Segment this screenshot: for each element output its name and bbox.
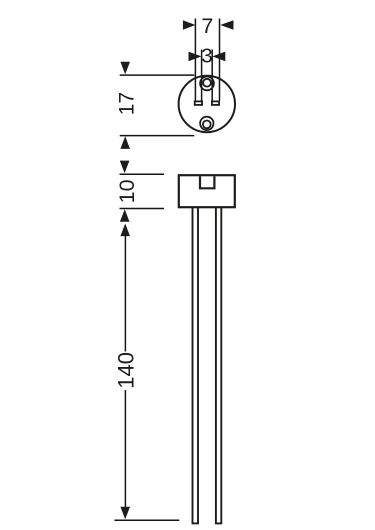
dimension 140 line upper xyxy=(124,236,126,352)
dimension 7 arrow left xyxy=(183,20,196,30)
extension line 17 top xyxy=(120,74,195,76)
bottom contact outer xyxy=(200,117,213,130)
big circle socket face xyxy=(179,76,235,132)
top contact inner xyxy=(203,79,211,87)
svg-text:140: 140 xyxy=(114,352,139,389)
dimension 7 arrow right xyxy=(220,20,233,30)
socket body xyxy=(179,175,235,207)
dimension 17 arrow top xyxy=(120,62,130,75)
dimension 10 arrow top xyxy=(120,161,130,174)
extension line 3 left xyxy=(201,50,203,101)
body notch xyxy=(200,176,214,188)
svg-text:17: 17 xyxy=(115,92,138,115)
svg-text:7: 7 xyxy=(201,14,213,38)
dimension 17 arrow bottom xyxy=(120,136,130,149)
extension line 10 top xyxy=(120,173,165,175)
dimension 140 arrow top xyxy=(120,224,130,237)
svg-text:3: 3 xyxy=(201,45,212,68)
pin slot right xyxy=(212,101,219,105)
extension line 140 bottom xyxy=(114,519,179,521)
svg-text:10: 10 xyxy=(115,179,139,203)
pin slot left xyxy=(195,101,202,105)
dimension 3 arrow left xyxy=(189,52,202,62)
dimension 3 arrow right xyxy=(212,52,225,62)
wire right xyxy=(216,207,221,524)
bottom contact inner xyxy=(203,121,211,129)
wire left xyxy=(193,207,199,524)
dimension 140 arrow bottom xyxy=(120,507,130,520)
dimension 10 arrow bottom xyxy=(120,209,130,222)
extension line 10 bottom xyxy=(120,208,165,210)
top contact outer xyxy=(200,77,214,91)
extension line 7 left xyxy=(194,19,196,101)
dimension 140 line lower xyxy=(124,390,126,507)
extension line 17 bottom xyxy=(120,135,195,137)
extension line 7 right xyxy=(219,19,221,101)
extension line 3 right xyxy=(211,50,213,101)
